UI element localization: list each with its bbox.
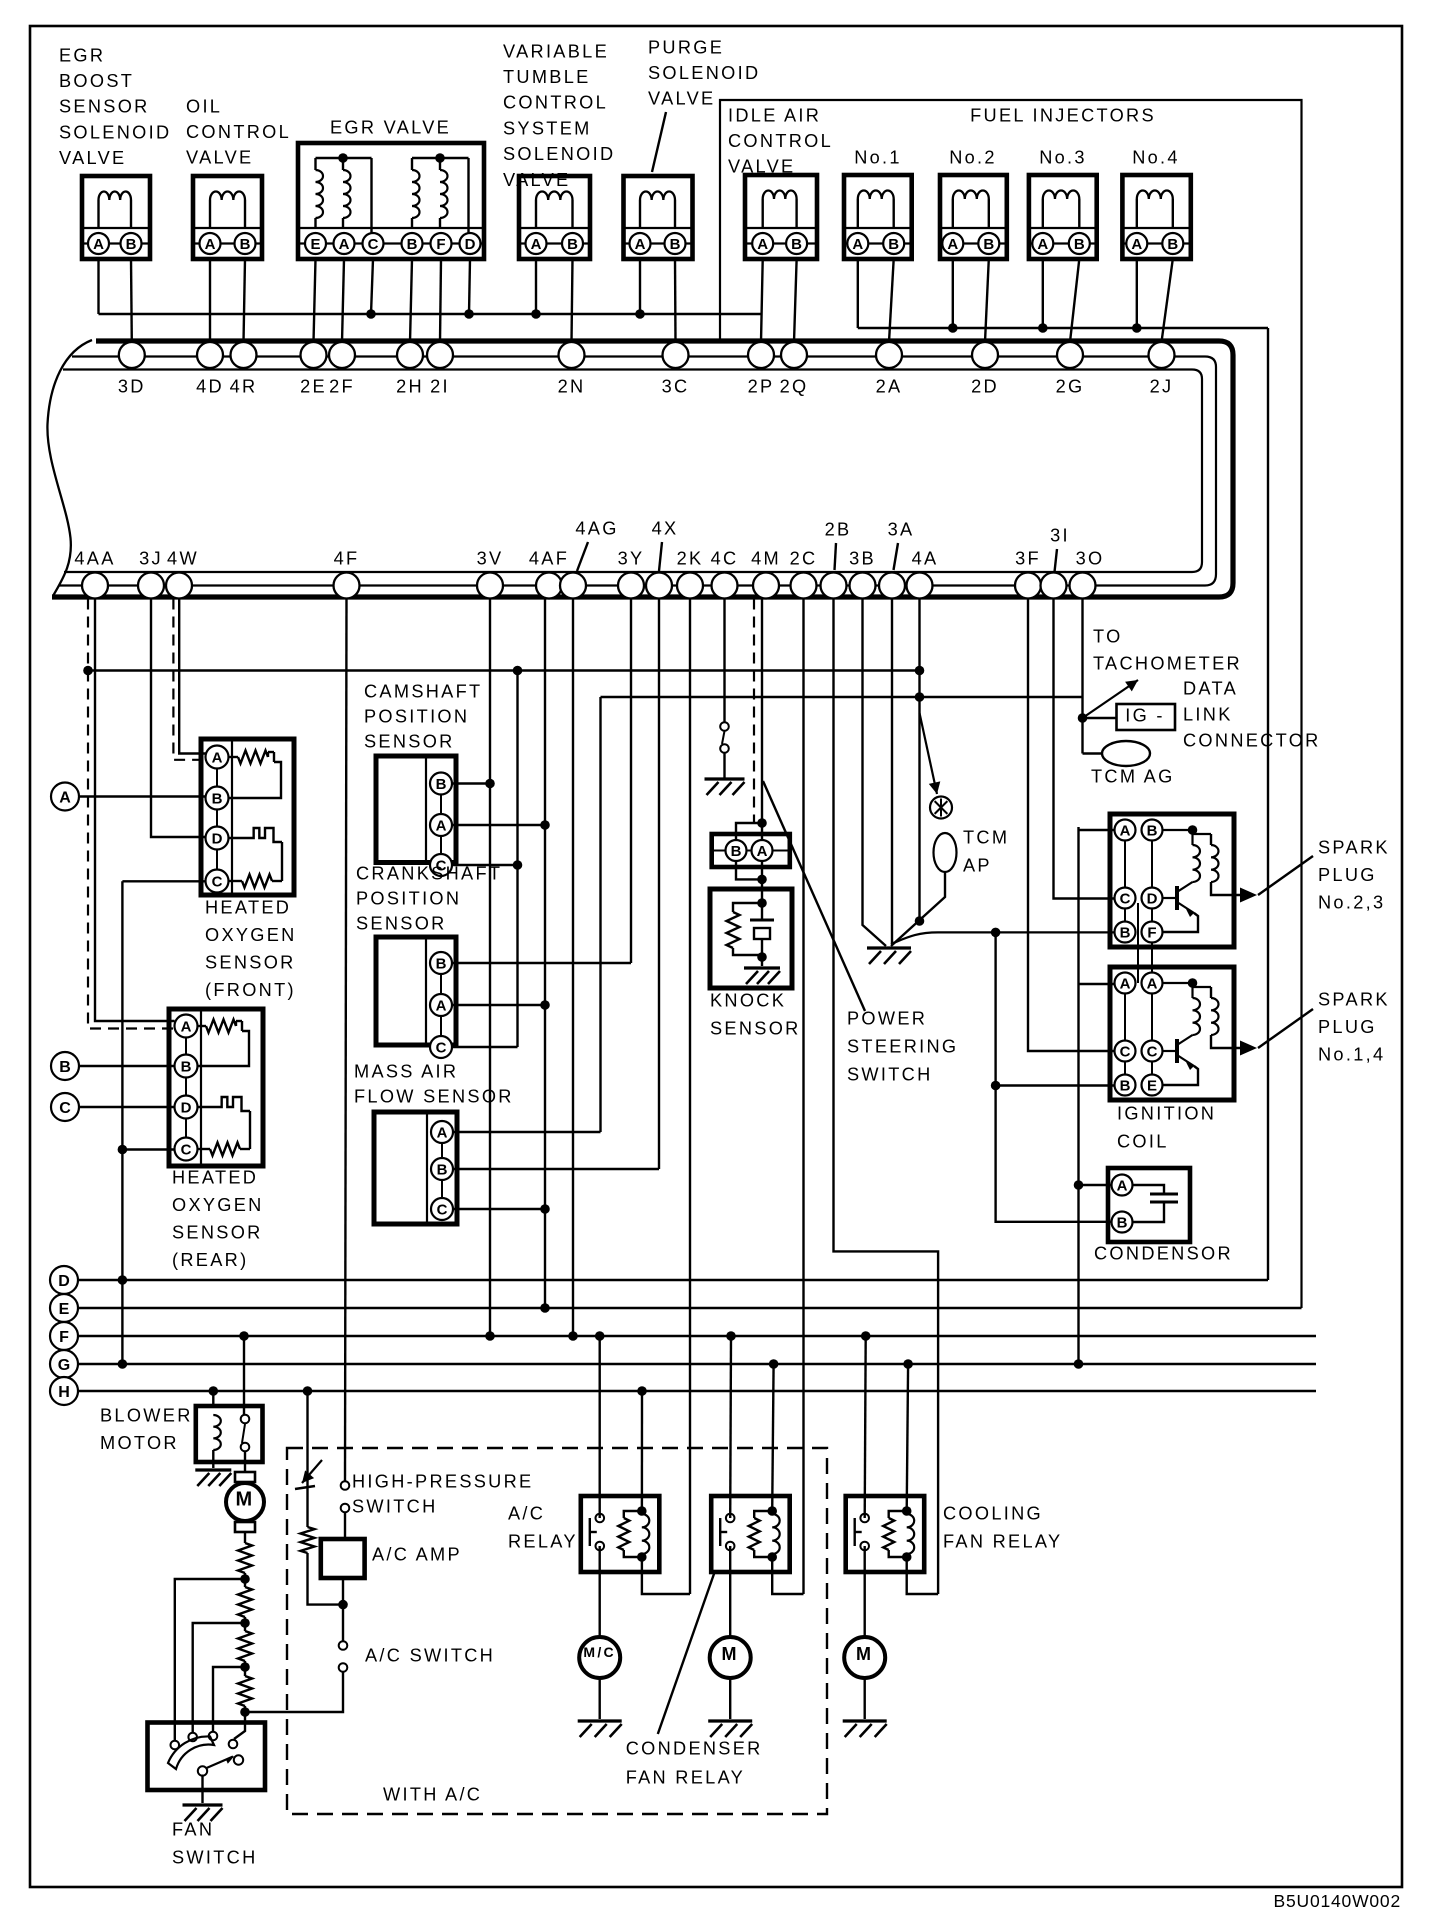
bus pin 2N: [559, 342, 585, 368]
knock sensor box: [710, 889, 792, 988]
wire EGR boost B to 3D: [130, 259, 133, 342]
wire to IG- box: [1083, 717, 1117, 719]
svg-text:4R: 4R: [230, 376, 258, 396]
riser W3 to CKP C: [516, 671, 518, 1048]
svg-text:SENSOR: SENSOR: [172, 1222, 263, 1242]
coil of IAC valve: [762, 199, 764, 228]
wire W4 riser to MAF A: [599, 697, 601, 1132]
blower resistor 2: [238, 1587, 252, 1617]
svg-text:B: B: [670, 236, 681, 253]
svg-text:FLOW SENSOR: FLOW SENSOR: [354, 1086, 514, 1106]
svg-text:4A: 4A: [912, 548, 939, 568]
A/C relay coil and resistor: [637, 1506, 647, 1516]
wire ground vee to ignition B feed: [891, 932, 1114, 944]
bus pin 3I: [1041, 573, 1067, 599]
CKP pin C: [430, 1036, 452, 1058]
IG- data link connector box: [1117, 704, 1176, 730]
node AC amp out: [338, 1600, 348, 1610]
svg-text:SENSOR: SENSOR: [356, 913, 447, 933]
svg-text:M: M: [856, 1644, 873, 1664]
svg-text:HIGH-PRESSURE: HIGH-PRESSURE: [352, 1471, 533, 1491]
svg-text:TO: TO: [1093, 626, 1123, 646]
coil of purge valve: [639, 200, 641, 228]
idle air control valve: [745, 175, 817, 259]
A/C relay switch contacts: [596, 1514, 605, 1523]
wire 4M dashed companion: [753, 599, 755, 824]
node condensor A feed: [1074, 1180, 1084, 1190]
svg-text:A: A: [1037, 236, 1048, 253]
wire 4F high pressure switch: [345, 599, 347, 1482]
svg-text:MOTOR: MOTOR: [100, 1433, 179, 1453]
front O2 pin chain: [216, 757, 218, 881]
svg-text:No.4: No.4: [1132, 147, 1180, 167]
wire IAC B to 2Q: [794, 260, 797, 342]
svg-text:CONNECTOR: CONNECTOR: [1183, 730, 1321, 750]
svg-text:B5U0140W002: B5U0140W002: [1274, 1891, 1402, 1911]
wire 4AG down to rail F: [572, 599, 574, 1337]
node 3O IG junction: [1078, 713, 1088, 723]
wire tap1 to fan switch: [175, 1579, 245, 1740]
svg-text:CONTROL: CONTROL: [728, 131, 833, 151]
svg-text:A: A: [436, 817, 447, 834]
fuel injector No.4: [1122, 175, 1190, 259]
svg-text:EGR VALVE: EGR VALVE: [330, 117, 451, 137]
ECM bus middle rail: [59, 357, 1216, 586]
node W2 inj3: [1038, 323, 1048, 333]
front O2 sensing resistor: [229, 880, 243, 882]
heated oxygen sensor (front) box: [201, 739, 294, 895]
rail H: [78, 1390, 1316, 1392]
knock connector pin B: [726, 840, 747, 861]
wire fan switch to ground: [201, 1775, 203, 1804]
dashed option box WITH A/C: [287, 1448, 827, 1814]
wire cooling FR coil loop: [907, 1557, 938, 1594]
wire knock A down: [761, 861, 763, 903]
wire 4AF down to rail E: [544, 599, 546, 1309]
wire: [244, 1661, 246, 1676]
rear O2 sensing resistor: [198, 1148, 211, 1150]
svg-text:BOOST: BOOST: [59, 71, 134, 91]
wire common W1 (solenoid valve commons to pin 2P): [99, 313, 762, 315]
svg-text:2K: 2K: [677, 548, 704, 568]
blower resistor 3: [238, 1631, 252, 1661]
svg-text:OIL: OIL: [186, 96, 222, 116]
wire 4W solid to front O2 A: [179, 599, 205, 754]
wire EGR D down: [469, 259, 470, 314]
svg-text:OXYGEN: OXYGEN: [172, 1195, 264, 1215]
svg-text:E: E: [1147, 1077, 1157, 1094]
knock sensor internal ground: [761, 957, 763, 966]
svg-text:3B: 3B: [849, 548, 876, 568]
svg-text:KNOCK: KNOCK: [710, 990, 786, 1010]
wire injector No.4 B to 2J: [1162, 259, 1173, 342]
ground vee symbol: [867, 946, 911, 949]
node W3 start: [83, 666, 93, 676]
node W3 CMP-C riser: [513, 666, 523, 676]
wire CKP B to 3Y: [452, 962, 631, 964]
left connector E: [50, 1294, 78, 1322]
fan switch box: [148, 1723, 266, 1791]
svg-text:B: B: [1074, 236, 1085, 253]
svg-text:C: C: [212, 873, 223, 890]
svg-text:F: F: [1147, 924, 1156, 941]
svg-text:VARIABLE: VARIABLE: [503, 41, 609, 61]
wire 3A down to ground vee: [891, 599, 893, 945]
wire EGR C down: [371, 259, 373, 314]
node 3V CMP B: [485, 779, 495, 789]
svg-text:VALVE: VALVE: [503, 170, 570, 190]
thermistor resistor: [301, 1527, 315, 1553]
svg-text:CONTROL: CONTROL: [503, 93, 608, 113]
wire 2C down to condenser fan relay loop: [802, 599, 804, 1595]
ground condenser fan motor: [708, 1719, 752, 1722]
purge solenoid valve: [624, 176, 693, 259]
bus pin 2D: [972, 342, 998, 368]
wire knock B bottom: [736, 861, 762, 879]
CMP pin A: [430, 814, 452, 836]
svg-text:D: D: [465, 236, 476, 253]
blower relay coil: [213, 1415, 221, 1450]
bus pin 3A: [879, 573, 905, 599]
ground blower relay: [195, 1468, 231, 1471]
svg-text:B: B: [1117, 1214, 1128, 1231]
svg-text:B: B: [407, 236, 418, 253]
power steering switch contact 2: [720, 744, 729, 753]
ground PS switch: [705, 777, 745, 780]
left connector A: [51, 783, 79, 811]
svg-text:3I: 3I: [1050, 525, 1070, 545]
bus pin 3J: [138, 573, 164, 599]
wire rail D right riser to W2: [1267, 328, 1269, 1280]
bus pin 2E: [301, 342, 327, 368]
bus pin 3F: [1015, 573, 1041, 599]
svg-text:COOLING: COOLING: [943, 1503, 1043, 1523]
node rail F blower switch: [239, 1331, 249, 1341]
svg-text:A: A: [531, 236, 542, 253]
svg-text:4AA: 4AA: [74, 548, 115, 568]
svg-text:B: B: [59, 1059, 71, 1076]
wire M motor to ground: [864, 1678, 866, 1719]
svg-text:D: D: [212, 830, 223, 847]
wire 3J to front O2 D: [151, 599, 206, 838]
condensor pin B: [1112, 1212, 1133, 1233]
wire VTCS A down: [535, 259, 537, 314]
wire injector No.3 A down: [1042, 259, 1044, 328]
leader line purge valve: [652, 112, 666, 172]
svg-text:No.1,4: No.1,4: [1318, 1044, 1385, 1064]
wire CFR coil loop: [772, 1557, 803, 1594]
svg-text:B: B: [126, 236, 137, 253]
node 4AF CKP A: [540, 1000, 550, 1010]
wire injector No.3 B to 2G: [1070, 259, 1079, 342]
svg-text:No.3: No.3: [1039, 147, 1087, 167]
svg-text:2E: 2E: [300, 376, 327, 396]
svg-text:VALVE: VALVE: [186, 148, 253, 168]
bus pin 2J: [1149, 342, 1175, 368]
wire 3O to TCM AG: [1083, 752, 1103, 754]
node ignition B feed split: [991, 928, 1001, 938]
svg-text:3Y: 3Y: [618, 548, 645, 568]
svg-text:3J: 3J: [139, 548, 163, 568]
wire EGR boost A to common W1: [97, 259, 99, 314]
svg-text:4D: 4D: [196, 376, 224, 396]
svg-text:B: B: [1120, 1077, 1131, 1094]
wire PS switch to ground: [723, 753, 725, 779]
condenser fan relay coil and resistor: [767, 1506, 777, 1516]
svg-text:D: D: [58, 1273, 70, 1290]
M/C motor: [579, 1637, 620, 1678]
node W2 inj4: [1132, 323, 1142, 333]
wire W3 horizontal: [88, 669, 920, 671]
bus pin 3V: [477, 573, 503, 599]
node W1-purge-A: [635, 309, 645, 319]
svg-text:C: C: [368, 236, 379, 253]
flasher symbol (asterisk circle): [930, 797, 952, 819]
wire IAC A to 2P: [761, 260, 763, 342]
bus pin 3Y: [618, 573, 644, 599]
wire rail H to thermistor: [306, 1391, 308, 1527]
blower motor relay box: [196, 1406, 263, 1462]
bus pin 3O: [1070, 573, 1096, 599]
rear O2 pin chain: [185, 1026, 187, 1149]
cooling fan relay coil and resistor: [902, 1506, 912, 1516]
node knock top: [757, 818, 767, 828]
ignition coil upper spark output: [1211, 882, 1240, 895]
bus pin 4R: [231, 342, 257, 368]
wire EGR A to 2F: [342, 259, 344, 342]
EGR valve coils group 1: [316, 170, 324, 218]
blower resistor 1: [238, 1543, 252, 1573]
ignition A feed riser: [1077, 827, 1079, 1364]
rear O2 pin D: [175, 1096, 198, 1119]
coil of injector No.4: [1136, 199, 1138, 228]
wire MAF A: [453, 1131, 601, 1133]
svg-text:F: F: [59, 1329, 69, 1346]
wire CMP B to 3V: [452, 782, 490, 784]
svg-text:BLOWER: BLOWER: [100, 1405, 193, 1425]
wire purge B to 3C: [674, 259, 677, 342]
svg-text:B: B: [437, 1161, 448, 1178]
wire EGR B to 2H: [410, 259, 412, 342]
svg-text:A: A: [947, 236, 958, 253]
left connector D: [50, 1266, 78, 1294]
svg-text:LINK: LINK: [1183, 704, 1233, 724]
wire front O2 C down to rear C and rail G: [121, 881, 123, 1364]
node tap1: [240, 1574, 250, 1584]
wire 4M down to knock connector: [761, 599, 763, 841]
node W1-VTCS-A: [531, 309, 541, 319]
svg-text:SOLENOID: SOLENOID: [648, 63, 760, 83]
svg-text:WITH A/C: WITH A/C: [383, 1784, 482, 1804]
svg-text:A/C AMP: A/C AMP: [372, 1544, 462, 1564]
svg-text:(FRONT): (FRONT): [205, 980, 296, 1000]
leader spark plug No.1,4: [1258, 1009, 1313, 1048]
bus pin 4M: [753, 573, 779, 599]
svg-text:H: H: [58, 1384, 70, 1401]
rail G: [78, 1363, 1316, 1365]
condensor capacitor symbol: [1133, 1185, 1165, 1194]
arrow to tachometer: [1083, 680, 1139, 718]
rail E: [78, 1307, 1302, 1309]
svg-text:DATA: DATA: [1183, 678, 1238, 698]
node rail G cooling FR coil: [903, 1359, 913, 1369]
wire rail F to blower switch: [243, 1336, 245, 1419]
bus pin 4C: [712, 573, 738, 599]
node rail D left: [118, 1275, 128, 1285]
svg-text:4F: 4F: [334, 548, 360, 568]
MAF pin B: [431, 1158, 453, 1180]
rear O2 heater resistor: [198, 1025, 207, 1027]
wire CFR switch to M motor: [729, 1546, 731, 1637]
svg-text:SWITCH: SWITCH: [352, 1496, 438, 1516]
wire: [244, 1573, 246, 1587]
ignition coil upper pin columns: [1124, 840, 1126, 888]
wire split down to lower coil B: [994, 932, 996, 1085]
wire: [244, 1706, 246, 1712]
svg-text:2N: 2N: [558, 376, 586, 396]
wire G to CFR coil: [772, 1364, 773, 1511]
svg-text:A: A: [212, 749, 223, 766]
wire F to AC relay switch: [599, 1336, 601, 1518]
bus pin 2B: [821, 573, 847, 599]
wire AC relay coil loop: [642, 1557, 690, 1594]
svg-text:B: B: [240, 236, 251, 253]
svg-text:C: C: [1147, 1043, 1158, 1060]
node rail G blower: [118, 1359, 128, 1369]
node knock bottom: [757, 875, 767, 885]
ignition coil lower primary/secondary coils: [1163, 982, 1193, 984]
svg-text:B: B: [436, 955, 447, 972]
wire VTCS B to 2N: [572, 259, 573, 342]
power steering switch contact 1: [720, 722, 729, 731]
CKP pin chain: [440, 963, 442, 1047]
node tap3: [240, 1662, 250, 1672]
svg-text:B: B: [983, 236, 994, 253]
camshaft position sensor box: [376, 756, 456, 863]
svg-text:2D: 2D: [971, 376, 999, 396]
fan switch NE contact: [234, 1755, 243, 1764]
node rail H AC relay coil: [637, 1386, 647, 1396]
svg-text:A: A: [339, 236, 350, 253]
svg-text:B: B: [181, 1058, 192, 1075]
svg-text:(REAR): (REAR): [172, 1250, 248, 1270]
svg-text:2Q: 2Q: [780, 376, 809, 396]
svg-text:2A: 2A: [876, 376, 903, 396]
wire F to cooling FR switch: [865, 1336, 866, 1518]
bus pin 3C: [663, 342, 689, 368]
svg-text:COIL: COIL: [1117, 1131, 1169, 1151]
wire AC relay switch to MC motor: [599, 1546, 601, 1637]
front O2 heater resistor: [229, 756, 239, 758]
svg-text:A: A: [757, 843, 768, 860]
svg-text:IG -: IG -: [1125, 705, 1165, 725]
condenser fan relay switch contacts: [726, 1514, 735, 1523]
wire CKP C to riser: [452, 1046, 518, 1048]
svg-text:SENSOR: SENSOR: [205, 952, 296, 972]
svg-text:B: B: [1167, 236, 1178, 253]
svg-text:SENSOR: SENSOR: [59, 97, 150, 117]
svg-text:HEATED: HEATED: [172, 1167, 258, 1187]
front O2 pin D: [206, 827, 229, 850]
svg-text:HEATED: HEATED: [205, 897, 291, 917]
svg-text:IDLE AIR: IDLE AIR: [728, 105, 821, 125]
ignition coil upper pins: [1115, 820, 1136, 841]
svg-text:TACHOMETER: TACHOMETER: [1093, 653, 1242, 673]
rail F: [78, 1335, 1316, 1337]
wire 3F down to lower coil C: [1028, 599, 1114, 1052]
node W4 at 4A: [915, 692, 925, 702]
bus pin 2H: [397, 342, 423, 368]
wire blower coil to ground: [212, 1450, 214, 1462]
svg-text:A: A: [757, 236, 768, 253]
node AC switch junction: [240, 1707, 250, 1717]
bus pin 2I: [427, 342, 453, 368]
svg-text:SWITCH: SWITCH: [172, 1847, 258, 1867]
ignition coil lower spark output: [1211, 1035, 1240, 1048]
left connector F: [50, 1322, 78, 1350]
bus pin 4F: [334, 573, 360, 599]
svg-text:B: B: [567, 236, 578, 253]
rail D: [78, 1279, 1268, 1281]
fan switch contacts: [171, 1741, 180, 1750]
node knock sensor top: [757, 898, 767, 908]
svg-text:OXYGEN: OXYGEN: [205, 925, 297, 945]
svg-text:SPARK: SPARK: [1318, 989, 1390, 1009]
svg-text:A: A: [852, 236, 863, 253]
fuel injector No.2: [940, 175, 1007, 259]
wire to lower coil B pin: [996, 1084, 1114, 1086]
svg-text:B: B: [212, 790, 223, 807]
coil of VTCS valve: [535, 200, 537, 228]
knock connector box: [712, 834, 790, 867]
blower motor M: [235, 1472, 255, 1482]
fan switch pivot: [198, 1766, 207, 1775]
node 4AG rail F: [568, 1331, 578, 1341]
svg-text:M/C: M/C: [583, 1644, 616, 1660]
svg-text:TCM: TCM: [963, 827, 1009, 847]
svg-text:FUEL INJECTORS: FUEL INJECTORS: [970, 105, 1156, 125]
wire 4AA dashed to rear O2 A: [88, 599, 175, 1029]
svg-text:CRANKSHAFT: CRANKSHAFT: [356, 863, 502, 883]
svg-text:POSITION: POSITION: [364, 706, 469, 726]
svg-text:B: B: [1147, 822, 1158, 839]
wire injector No.2 A down: [952, 259, 954, 328]
variable tumble control solenoid valve: [519, 176, 590, 259]
bus pin 2A: [876, 342, 902, 368]
front O2 pin B: [206, 787, 229, 810]
svg-text:2F: 2F: [329, 376, 355, 396]
svg-text:F: F: [436, 236, 445, 253]
svg-text:3A: 3A: [888, 519, 915, 539]
coil of EGR boost solenoid: [97, 200, 99, 228]
svg-text:4W: 4W: [167, 548, 199, 568]
svg-text:B: B: [888, 236, 899, 253]
svg-text:A: A: [437, 1124, 448, 1141]
svg-text:SWITCH: SWITCH: [847, 1064, 933, 1084]
svg-text:A: A: [1147, 975, 1158, 992]
bus pin 2G: [1057, 342, 1083, 368]
wire oil valve A to 4D: [209, 259, 211, 342]
svg-text:FAN: FAN: [172, 1819, 214, 1839]
node W1-C: [366, 309, 376, 319]
CKP pin A: [430, 994, 452, 1016]
wire oil valve B to 4R: [244, 259, 246, 342]
CMP pin chain: [440, 784, 442, 866]
node 3V rail F: [485, 1331, 495, 1341]
CMP pin B: [430, 773, 452, 795]
bus pin 2P: [748, 342, 774, 368]
svg-text:3C: 3C: [662, 376, 690, 396]
